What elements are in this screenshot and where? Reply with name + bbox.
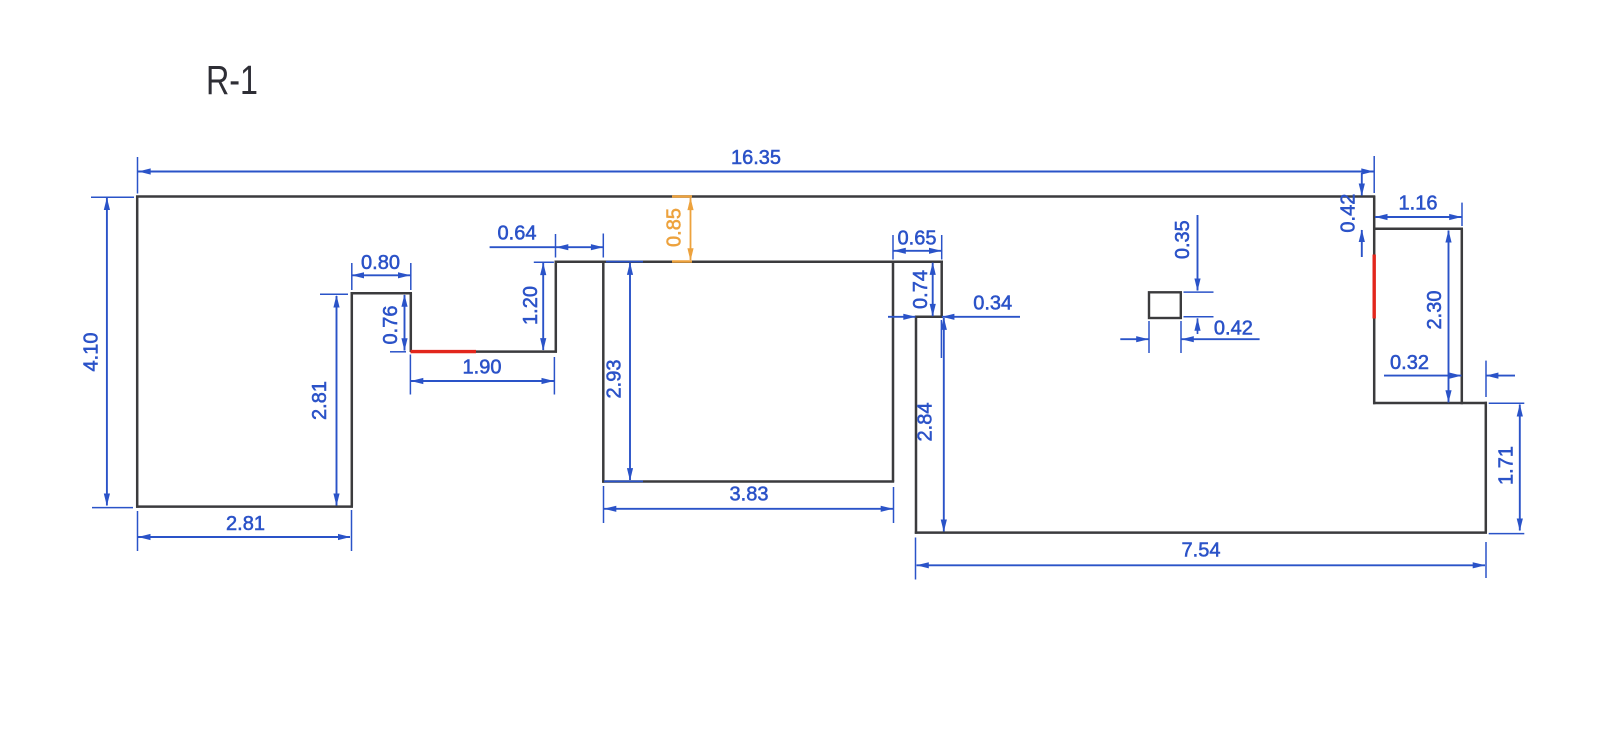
svg-text:0.74: 0.74 (910, 270, 932, 309)
svg-text:0.32: 0.32 (1390, 352, 1429, 374)
svg-text:0.42: 0.42 (1214, 317, 1253, 339)
svg-text:3.83: 3.83 (730, 484, 769, 506)
svg-text:0.42: 0.42 (1338, 194, 1360, 233)
svg-text:2.93: 2.93 (604, 360, 626, 399)
svg-text:2.81: 2.81 (309, 381, 331, 420)
svg-text:R-1: R-1 (206, 57, 258, 103)
svg-text:2.84: 2.84 (915, 403, 937, 442)
svg-text:0.76: 0.76 (380, 306, 402, 345)
svg-text:2.81: 2.81 (226, 513, 265, 535)
svg-text:0.80: 0.80 (361, 252, 400, 274)
svg-text:0.85: 0.85 (664, 208, 686, 247)
svg-text:16.35: 16.35 (731, 147, 781, 169)
svg-text:1.71: 1.71 (1496, 446, 1518, 485)
svg-text:7.54: 7.54 (1182, 540, 1221, 562)
svg-text:2.30: 2.30 (1424, 291, 1446, 330)
svg-text:0.64: 0.64 (498, 223, 537, 245)
svg-text:1.90: 1.90 (463, 356, 502, 378)
svg-text:4.10: 4.10 (81, 333, 103, 372)
svg-text:0.35: 0.35 (1172, 220, 1194, 259)
svg-text:1.16: 1.16 (1399, 192, 1438, 214)
svg-text:1.20: 1.20 (520, 286, 542, 325)
svg-text:0.65: 0.65 (898, 227, 937, 249)
svg-text:0.34: 0.34 (973, 293, 1012, 315)
